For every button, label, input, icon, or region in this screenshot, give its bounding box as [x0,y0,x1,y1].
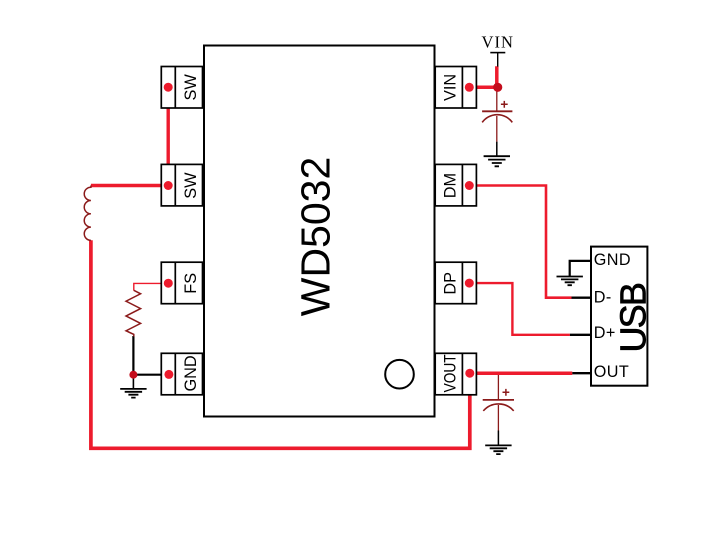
svg-text:GND: GND [594,251,631,269]
svg-text:FS: FS [182,273,200,294]
svg-text:VIN: VIN [442,74,460,101]
svg-text:WD5032: WD5032 [292,157,338,317]
svg-text:VIN: VIN [482,32,514,51]
svg-text:USB: USB [613,283,654,352]
svg-text:VOUT: VOUT [442,354,460,392]
svg-text:D-: D- [594,288,612,306]
svg-text:OUT: OUT [594,363,629,381]
svg-text:DM: DM [442,173,460,198]
svg-text:SW: SW [182,172,200,199]
svg-text:SW: SW [182,74,200,101]
svg-text:GND: GND [182,355,200,391]
svg-text:DP: DP [442,272,460,295]
